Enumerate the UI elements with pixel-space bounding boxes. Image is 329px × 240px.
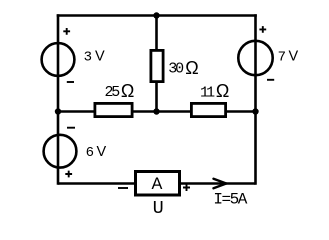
svg-text:V: V [95, 49, 105, 65]
svg-text:I=5A: I=5A [213, 191, 247, 209]
svg-text:A: A [152, 175, 163, 193]
svg-text:Ω: Ω [185, 58, 198, 78]
svg-text:Ω: Ω [121, 81, 134, 101]
svg-text:Ω: Ω [216, 81, 229, 101]
svg-text:V: V [289, 49, 299, 65]
svg-text:30: 30 [168, 61, 184, 78]
svg-text:U: U [153, 198, 164, 219]
svg-text:3: 3 [84, 49, 92, 65]
svg-text:7: 7 [278, 49, 286, 65]
svg-text:V: V [97, 144, 107, 160]
svg-text:25: 25 [105, 84, 121, 101]
svg-text:6: 6 [86, 145, 94, 161]
